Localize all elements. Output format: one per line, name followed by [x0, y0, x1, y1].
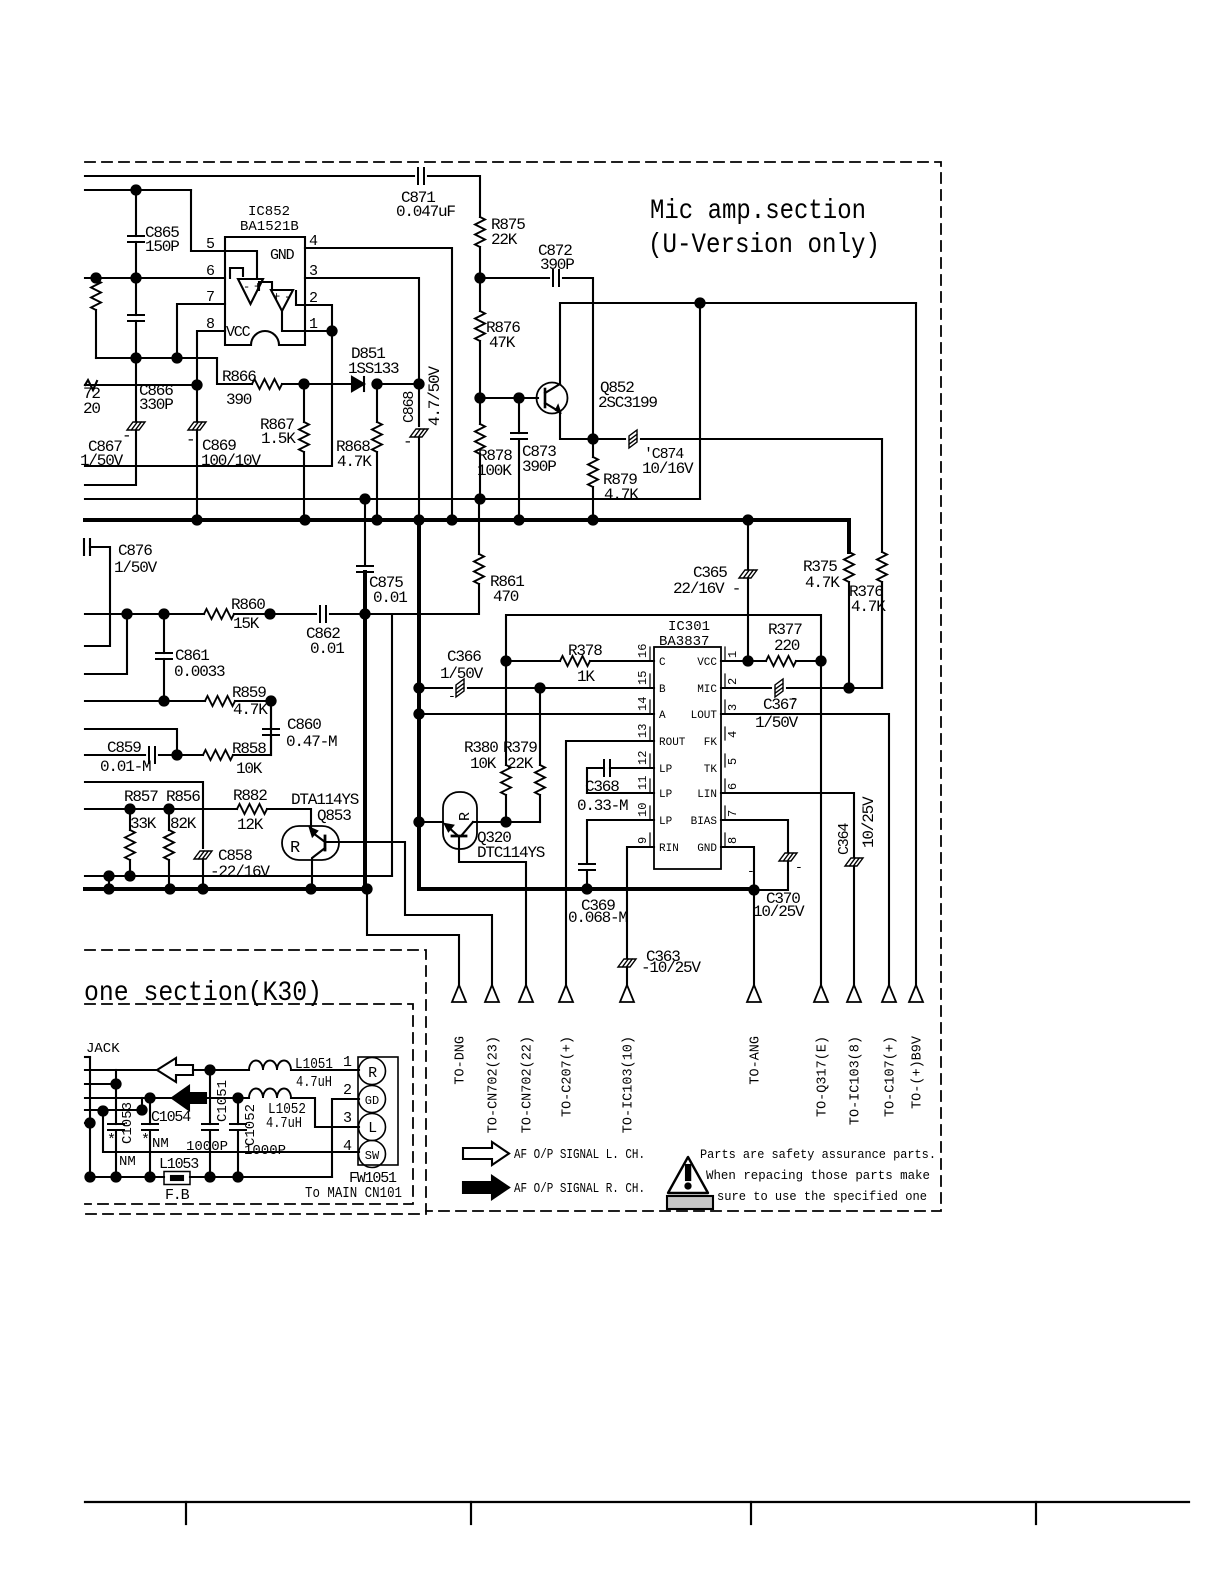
svg-text:When repacing those parts make: When repacing those parts make	[706, 1168, 930, 1183]
svg-text:*: *	[141, 1132, 149, 1149]
capacitor C368 between LP pins	[587, 768, 654, 793]
node R857 top	[125, 804, 134, 813]
svg-text:390P: 390P	[522, 458, 556, 476]
svg-text:C860: C860	[287, 716, 321, 734]
wire LP pin10 row to C369	[587, 820, 654, 863]
svg-text:TO-ANG: TO-ANG	[749, 1036, 764, 1085]
capacitor C860	[270, 701, 272, 729]
jack stub switch contact	[85, 1109, 142, 1111]
wire R860 to C862	[270, 613, 316, 615]
node C868 top	[414, 379, 423, 388]
resistor R861	[474, 554, 484, 584]
wire LIN row to C364	[721, 793, 854, 857]
capacitor C867 (electrolytic)	[135, 358, 137, 421]
node C861 bottom	[159, 696, 168, 705]
bus2 node GND end	[749, 885, 758, 894]
svg-text:6: 6	[726, 783, 740, 790]
node R859 right	[266, 696, 275, 705]
wire R376 bottom corner	[881, 582, 883, 688]
ground bus left (thick)	[85, 887, 367, 891]
svg-text:TO-(+)B9V: TO-(+)B9V	[911, 1035, 926, 1109]
wire top rail to C871	[85, 175, 414, 177]
wire RIN row to C363	[627, 847, 654, 958]
resistor R860	[204, 609, 234, 619]
ground row continued	[190, 1176, 332, 1178]
svg-text:AF O/P SIGNAL L. CH.: AF O/P SIGNAL L. CH.	[514, 1148, 645, 1163]
ground row	[90, 1176, 164, 1178]
node R856 top	[164, 804, 173, 813]
wire IC852 pin8 VCC	[197, 331, 225, 385]
wire Q853 collector to bus	[312, 848, 325, 889]
node C865 top	[131, 185, 140, 194]
resistor R868	[376, 384, 378, 422]
svg-text:C366: C366	[447, 648, 481, 666]
node R380 bottom	[501, 817, 510, 826]
wire link rows	[141, 1098, 143, 1110]
wire drop to C1053 node	[115, 1070, 117, 1084]
capacitor C364 (electrolytic)	[845, 858, 863, 866]
svg-text:4.7K: 4.7K	[851, 598, 886, 616]
svg-text:0.0033: 0.0033	[174, 663, 225, 681]
svg-text:33K: 33K	[130, 815, 157, 833]
svg-text:47K: 47K	[489, 334, 516, 352]
bus node Q853	[306, 884, 315, 893]
svg-text:Q853: Q853	[317, 807, 351, 825]
svg-text:16: 16	[636, 644, 650, 658]
node C873 top	[514, 393, 523, 402]
svg-text:82K: 82K	[170, 815, 197, 833]
capacitor C871	[418, 168, 424, 184]
wire arrow to L1051	[193, 1069, 249, 1071]
svg-text:C868: C868	[401, 391, 418, 423]
svg-text:1K: 1K	[577, 668, 595, 686]
wire R872 row from page edge	[85, 384, 197, 386]
svg-text:C1053: C1053	[120, 1102, 136, 1144]
table tick 3	[750, 1502, 752, 1524]
wire arrow to L1052	[206, 1097, 249, 1099]
resistor R871 (cut at page edge)	[91, 280, 101, 310]
wire D851 to C868 node	[377, 383, 419, 385]
svg-text:11: 11	[636, 776, 650, 790]
warning gray box	[667, 1196, 713, 1209]
capacitor C861	[163, 614, 165, 653]
svg-text:8: 8	[726, 837, 740, 844]
capacitor C873	[518, 398, 520, 433]
svg-text:0.47-M: 0.47-M	[286, 733, 337, 751]
svg-text:10K: 10K	[470, 755, 497, 773]
svg-text:R: R	[290, 839, 300, 858]
svg-text:10/25V: 10/25V	[753, 903, 805, 921]
transistor Q852	[537, 383, 568, 414]
svg-text:F.B: F.B	[165, 1187, 190, 1204]
svg-text:-10/25V: -10/25V	[641, 959, 701, 977]
node R375 bottom	[844, 683, 853, 692]
node R378 left	[501, 656, 510, 665]
svg-text:*: *	[107, 1132, 115, 1149]
svg-text:A: A	[659, 710, 666, 722]
svg-text:TO-C207(+): TO-C207(+)	[561, 1036, 576, 1117]
svg-text:sure to use the specified one: sure to use the specified one	[717, 1189, 927, 1204]
wire IC852 pin3 to D851 node	[305, 278, 419, 384]
svg-text:Mic amp.section: Mic amp.section	[650, 196, 866, 227]
svg-text:JACK: JACK	[86, 1041, 120, 1057]
node base row mute rail	[414, 817, 423, 826]
capacitor C1054	[149, 1098, 151, 1124]
node pin7 link	[172, 353, 181, 362]
node A row mute rail	[414, 709, 423, 718]
resistor R867	[303, 384, 305, 422]
svg-text:3: 3	[726, 704, 740, 711]
node C1052 top	[233, 1093, 242, 1102]
node C875 column joint	[360, 609, 369, 618]
svg-text:4.7uH: 4.7uH	[296, 1074, 332, 1091]
resistor R866	[252, 379, 282, 389]
wire lower rail	[85, 498, 700, 500]
svg-text:-: -	[243, 280, 250, 294]
node ground jumper	[104, 871, 113, 880]
svg-text:GND: GND	[697, 843, 717, 855]
capacitor C363 (electrolytic)	[618, 959, 636, 967]
svg-text:4.7K: 4.7K	[233, 701, 268, 719]
svg-text:390P: 390P	[540, 256, 574, 274]
inductor L1051	[249, 1061, 291, 1071]
jack stub y1123 to common	[85, 1122, 90, 1124]
wire second rail	[85, 189, 191, 191]
node C872 row	[475, 273, 484, 282]
svg-text:BA3837: BA3837	[659, 634, 709, 650]
svg-text:1/50V: 1/50V	[80, 452, 124, 470]
svg-text:1000P: 1000P	[244, 1143, 286, 1159]
resistor R858	[177, 754, 203, 756]
wire Q852 emitter	[560, 412, 593, 439]
svg-text:R882: R882	[233, 787, 267, 805]
node emitter junction	[588, 434, 597, 443]
jack common column	[89, 1057, 91, 1177]
connector pin TO-C107(+)	[882, 985, 896, 1002]
resistor R378 on pin16 row	[506, 660, 560, 662]
svg-text:L1051: L1051	[295, 1056, 333, 1073]
wire emitter row to C874	[593, 438, 625, 440]
headphone section outer dashed border	[85, 950, 426, 1214]
capacitor C370 (electrolytic)	[779, 853, 797, 861]
svg-text:AF O/P SIGNAL R. CH.: AF O/P SIGNAL R. CH.	[514, 1182, 645, 1197]
node ground C1053	[111, 1172, 120, 1181]
node R871 top	[91, 273, 100, 282]
wire page edge stub y729	[85, 729, 177, 755]
svg-text:12K: 12K	[237, 816, 264, 834]
svg-text:10/16V: 10/16V	[642, 460, 694, 478]
warning triangle	[668, 1157, 708, 1193]
svg-text:Parts are safety assurance par: Parts are safety assurance parts.	[700, 1147, 936, 1162]
wire Q320 emitter to TO-CN702(22)	[459, 849, 526, 985]
capacitor C859	[149, 747, 155, 763]
wire SW row	[103, 1111, 359, 1152]
wire page edge stub y674	[85, 614, 127, 674]
resistor R875	[475, 217, 485, 247]
node ground C1052	[233, 1172, 242, 1181]
svg-text:SW: SW	[365, 1149, 380, 1163]
svg-text:C364: C364	[836, 823, 853, 855]
wire C872 row	[480, 277, 549, 279]
svg-text:1/50V: 1/50V	[755, 714, 799, 732]
connector pin TO-IC103(8)	[847, 985, 861, 1002]
svg-text:0.33-M: 0.33-M	[577, 797, 628, 815]
svg-text:3: 3	[343, 1110, 352, 1127]
svg-text:BIAS: BIAS	[691, 816, 718, 828]
svg-text:1/50V: 1/50V	[440, 665, 484, 683]
svg-text:4: 4	[726, 731, 740, 738]
svg-text:To MAIN CN101: To MAIN CN101	[305, 1185, 402, 1202]
wire TO-Q317(E) column	[820, 661, 822, 985]
node B row mute rail	[414, 683, 423, 692]
op-amp U852a	[238, 279, 263, 304]
resistor R859	[205, 696, 235, 706]
IC852 body	[225, 237, 305, 345]
svg-text:ROUT: ROUT	[659, 737, 686, 749]
table tick 1	[185, 1502, 187, 1524]
ferrite bead L1053	[164, 1172, 190, 1185]
wire R866 row	[217, 358, 252, 384]
node C866 bottom	[131, 353, 140, 362]
svg-text:-: -	[122, 427, 130, 445]
jack stub y1084	[85, 1083, 116, 1085]
headphone section inner dashed border	[85, 1004, 413, 1204]
svg-text:B: B	[659, 684, 666, 696]
mute rail (thick vertical)	[419, 520, 754, 889]
svg-text:0.01: 0.01	[373, 589, 407, 607]
svg-text:0.01: 0.01	[310, 640, 344, 658]
bus2 node C369	[582, 884, 591, 893]
wire C859 row	[85, 754, 145, 756]
resistor R380	[505, 661, 507, 765]
bus node R867	[300, 515, 309, 524]
svg-text:TO-DNG: TO-DNG	[454, 1036, 469, 1085]
wire to R861 bottom	[365, 584, 479, 614]
wire Q852 base	[480, 397, 538, 399]
svg-text:13: 13	[636, 724, 650, 738]
bus node C858	[198, 884, 207, 893]
connector pin TO-DNG	[452, 985, 466, 1002]
svg-text:R866: R866	[222, 368, 256, 386]
svg-text:(U-Version only): (U-Version only)	[648, 230, 880, 261]
wire BIAS row to C370	[721, 820, 788, 852]
wire Q320 base row	[419, 821, 443, 823]
wire pin7 link	[177, 304, 225, 358]
wire Q852 collector loop	[560, 303, 916, 384]
capacitor C1052	[237, 1098, 239, 1124]
wire R860 row	[85, 613, 204, 615]
node Q852 base row	[475, 393, 484, 402]
capacitor C874 (electrolytic in series)	[629, 430, 637, 448]
svg-text:GD: GD	[365, 1094, 379, 1108]
svg-text:+: +	[273, 290, 280, 304]
svg-text:IC301: IC301	[668, 619, 710, 635]
node IC301 VCC	[743, 656, 752, 665]
node D851 cathode	[372, 379, 381, 388]
capacitor C862	[320, 606, 326, 622]
resistor R375	[844, 552, 854, 582]
wire GD return	[332, 1099, 359, 1177]
svg-text:IC852: IC852	[248, 204, 290, 220]
svg-text:0.047uF: 0.047uF	[396, 203, 455, 221]
wire IC852 pin2	[305, 305, 332, 331]
svg-text:470: 470	[493, 588, 519, 606]
svg-text:TO-C107(+): TO-C107(+)	[884, 1036, 899, 1117]
svg-text:1000P: 1000P	[186, 1139, 228, 1155]
svg-text:R856: R856	[166, 788, 200, 806]
wire LP pin11 row	[587, 792, 654, 794]
filled arrow (R ch) headphone	[172, 1086, 206, 1110]
svg-text:LP: LP	[659, 816, 673, 828]
svg-text:-: -	[403, 433, 411, 451]
resistor R879	[592, 439, 594, 457]
svg-text:1SS133: 1SS133	[348, 360, 399, 378]
capacitor C869 (electrolytic in VCC column)	[196, 385, 198, 421]
table tick 2	[470, 1502, 472, 1524]
capacitor C366 (electrolytic in series) on B row	[419, 687, 452, 689]
svg-text:9: 9	[636, 837, 650, 844]
resistor R857	[129, 809, 131, 830]
svg-text:C1052: C1052	[243, 1104, 259, 1146]
bus node jumper	[104, 884, 113, 893]
svg-text:1/50V: 1/50V	[114, 559, 158, 577]
capacitor C876 at page edge	[84, 539, 90, 555]
svg-text:8: 8	[206, 316, 215, 333]
svg-text:LP: LP	[659, 789, 673, 801]
wire ground jumper	[108, 876, 110, 889]
svg-text:220: 220	[774, 637, 800, 655]
svg-text:4.7K: 4.7K	[337, 453, 372, 471]
svg-text:C876: C876	[118, 542, 152, 560]
svg-text:R: R	[457, 812, 474, 821]
svg-text:TO-CN702(23): TO-CN702(23)	[487, 1036, 502, 1133]
capacitor C858 (electrolytic)	[194, 851, 212, 859]
bus node pin4	[447, 515, 456, 524]
wire to IC852 pin5	[191, 190, 225, 251]
bus node R856	[165, 884, 174, 893]
svg-text:1: 1	[726, 651, 740, 658]
svg-text:22/16V -: 22/16V -	[673, 580, 740, 598]
node C1054 top	[145, 1093, 154, 1102]
transistor Q853	[282, 826, 339, 860]
mic amp section dashed border	[85, 162, 941, 1211]
node collector loop	[695, 298, 704, 307]
svg-text:100/10V: 100/10V	[201, 452, 261, 470]
node C861 top	[159, 609, 168, 618]
svg-text:L1053: L1053	[159, 1156, 199, 1173]
svg-text:MIC: MIC	[697, 684, 717, 696]
resistor R876	[479, 278, 481, 311]
svg-text:4.7K: 4.7K	[604, 486, 639, 504]
svg-text:R857: R857	[124, 788, 158, 806]
svg-text:TO-CN702(22): TO-CN702(22)	[521, 1036, 536, 1133]
wire TO-(+)B9V column	[915, 303, 917, 985]
node C1051 top	[205, 1065, 214, 1074]
svg-text:-: -	[795, 860, 803, 875]
wire IC852 pin6 row	[85, 277, 225, 279]
connector pin TO-ANG	[747, 985, 761, 1002]
open arrow (L ch) headphone	[157, 1058, 193, 1082]
capacitor C369	[579, 864, 595, 870]
svg-text:L: L	[368, 1120, 377, 1137]
node left column	[122, 609, 131, 618]
wire IC852 pin4 to bus	[305, 248, 452, 520]
svg-text:VCC: VCC	[226, 324, 251, 341]
svg-text:2: 2	[343, 1082, 351, 1099]
wire C871 to R875	[428, 176, 480, 217]
svg-text:7: 7	[726, 810, 740, 817]
resistor R376	[881, 439, 883, 552]
wire ROUT row to TO-C207(+)	[566, 741, 654, 985]
svg-text:-22/16V: -22/16V	[210, 863, 270, 881]
svg-text:NM: NM	[119, 1154, 136, 1170]
svg-text:BA1521B: BA1521B	[240, 219, 299, 235]
wire LOUT row to TO-C107(+)	[721, 714, 889, 985]
node ground C1054	[145, 1172, 154, 1181]
svg-text:15K: 15K	[233, 615, 260, 633]
node R878/R861 junction	[475, 494, 484, 503]
svg-text:C1051: C1051	[215, 1080, 231, 1122]
wire C872 to emitter node	[563, 278, 593, 439]
connector pin TO-(+)B9V	[909, 985, 923, 1002]
node C1053 top	[111, 1079, 120, 1088]
connector FW1051	[358, 1057, 398, 1165]
jack stub y1057	[85, 1056, 90, 1058]
svg-text:-: -	[284, 290, 291, 304]
wire right return to lower rail	[699, 303, 701, 499]
wire mid row	[96, 357, 217, 359]
bus node C873	[514, 515, 523, 524]
capacitor C1053	[115, 1084, 117, 1124]
svg-text:22K: 22K	[491, 231, 518, 249]
wire TO-ANG column	[753, 890, 755, 985]
svg-text:VCC: VCC	[697, 657, 717, 669]
svg-text:LP: LP	[659, 764, 673, 776]
svg-text:-: -	[448, 689, 456, 704]
svg-text:one section(K30): one section(K30)	[84, 978, 322, 1009]
connector pin TO-C207(+)	[559, 985, 573, 1002]
svg-text:4.7uH: 4.7uH	[266, 1115, 302, 1132]
svg-text:10/25V: 10/25V	[860, 796, 878, 848]
wire y876 row	[85, 875, 392, 877]
bus node R879	[588, 515, 597, 524]
node C859 right	[172, 750, 181, 759]
svg-text:22K: 22K	[507, 755, 534, 773]
capacitor C865	[135, 190, 137, 236]
svg-text:LOUT: LOUT	[691, 710, 718, 722]
svg-text:4.7K: 4.7K	[805, 574, 840, 592]
connector pin TO-Q317(E)	[814, 985, 828, 1002]
svg-text:C367: C367	[763, 696, 797, 714]
resistor R856	[168, 809, 170, 830]
svg-text:NM: NM	[152, 1136, 169, 1152]
svg-text:2SC3199: 2SC3199	[598, 394, 657, 412]
svg-text:4.7/50V: 4.7/50V	[426, 366, 444, 426]
wire GND row	[721, 847, 754, 890]
ground bus (thick)	[85, 520, 849, 552]
svg-text:10: 10	[636, 803, 650, 817]
capacitor C1051	[209, 1070, 211, 1124]
connector pin TO-CN702(22)	[519, 985, 533, 1002]
node R860 right	[265, 609, 274, 618]
node C875 top	[360, 494, 369, 503]
wire VCC row	[721, 660, 766, 662]
svg-text:150P: 150P	[145, 238, 179, 256]
thick C875 ground column	[363, 572, 367, 889]
node pin1/pin2 junction	[327, 326, 336, 335]
capacitor C872	[553, 270, 559, 286]
capacitor C367 (electrolytic in series)	[775, 679, 783, 697]
